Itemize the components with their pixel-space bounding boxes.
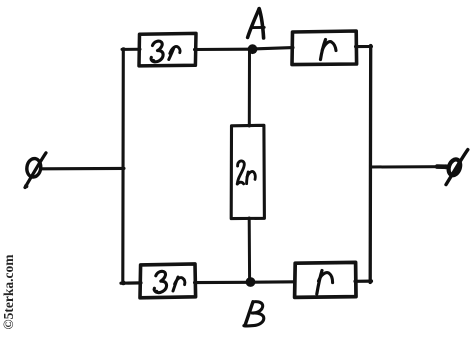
svg-text:©5terka.com: ©5terka.com [1,254,16,330]
